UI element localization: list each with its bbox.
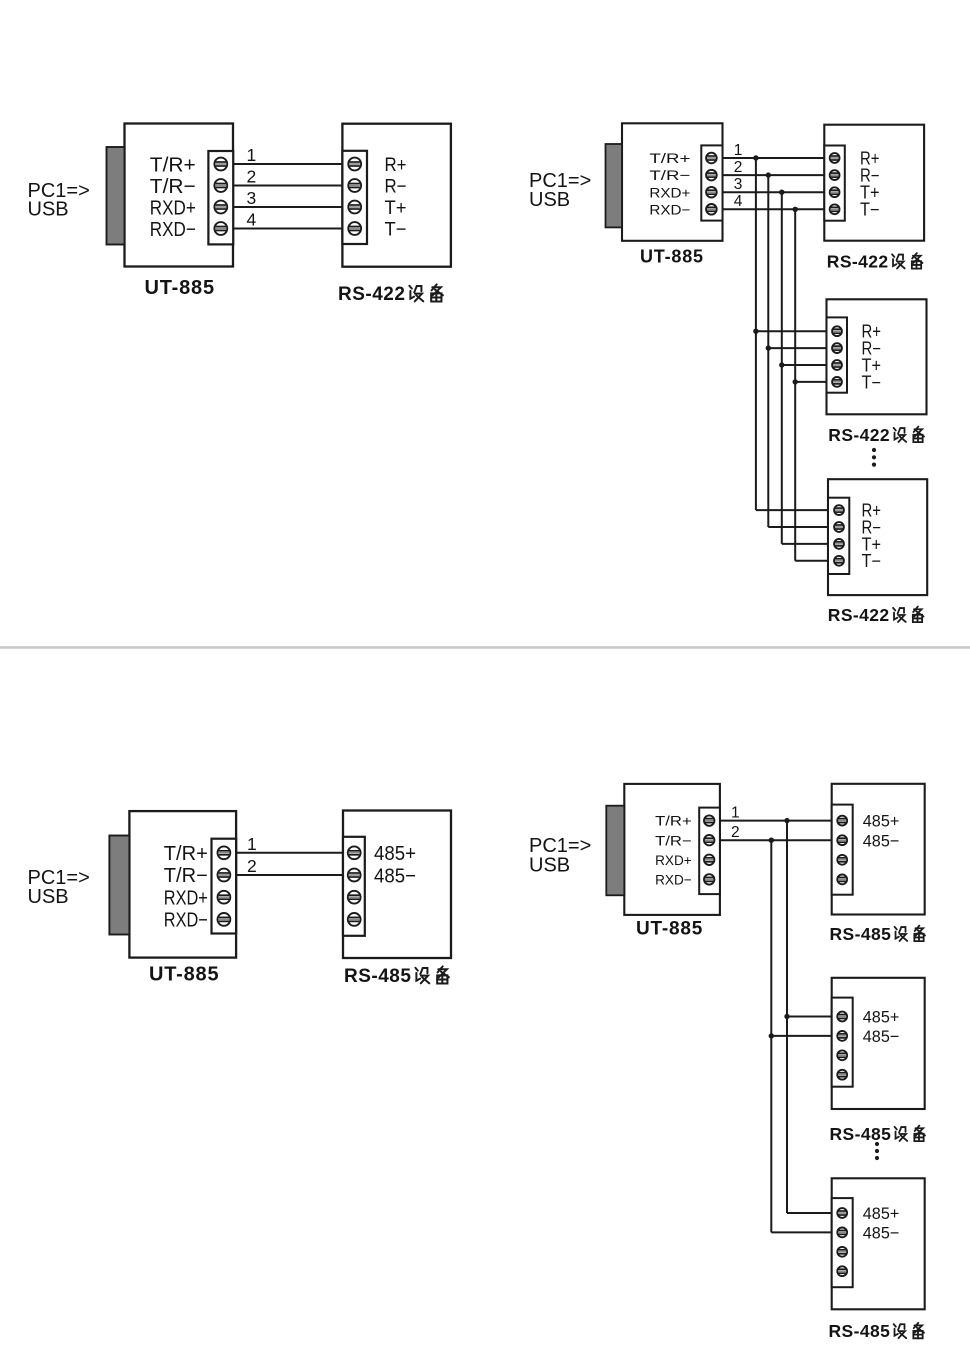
terminal block of RS-485 device 1 (D) — [832, 805, 853, 895]
device 3 terminal screw 4 (D) — [837, 1266, 847, 1276]
vertical bus wire 3 (B) — [781, 192, 783, 544]
svg-text:T/R−: T/R− — [150, 175, 196, 198]
svg-text:RXD−: RXD− — [649, 202, 690, 218]
device 1 terminal screw 1 (D) — [837, 816, 847, 826]
svg-text:4: 4 — [247, 210, 257, 230]
junction node wire 2 at device 2 tap (D) — [769, 1033, 774, 1038]
svg-text:2: 2 — [731, 824, 740, 841]
wire 2 (A) UT-885 pin 2 to RS-422 device — [233, 185, 343, 187]
branch wire 2 to device 3 (B) — [768, 526, 828, 528]
diagram D: UT-885 to multiple RS-485 devices — [529, 784, 925, 1341]
svg-text:485−: 485− — [863, 1027, 900, 1046]
device 3 terminal screw 1 (D) — [837, 1208, 847, 1218]
svg-text:485−: 485− — [863, 831, 900, 850]
RS-485 device body (C) — [343, 811, 451, 959]
RS-422 device 3 body (B) — [828, 479, 927, 595]
svg-text:T+: T+ — [385, 197, 407, 219]
terminal screw pin 2 of UT-885 (B) — [706, 170, 717, 181]
svg-text:4: 4 — [734, 193, 743, 210]
vertical bus wire 1 (D) — [786, 821, 788, 1213]
USB plug connector (B) — [606, 144, 623, 227]
svg-text:T/R+: T/R+ — [164, 843, 208, 865]
branch wire 4 to device 2 (B) — [795, 381, 826, 383]
designator sheBei chars device 3 (D) — [894, 1323, 924, 1339]
svg-text:RXD−: RXD− — [150, 218, 196, 241]
device 1 terminal screw T- (B) — [830, 204, 840, 214]
junction node wire 4 at device 1 tap (B) — [793, 207, 798, 212]
device terminal screw R+ (A) — [348, 158, 361, 171]
branch wire 1 to device 3 (B) — [756, 509, 828, 511]
svg-text:T−: T− — [385, 219, 407, 241]
designator sheBei chars (C) — [415, 966, 449, 983]
section divider line — [0, 646, 970, 649]
terminal block of RS-422 device (A) — [342, 151, 367, 244]
branch wire 2 to device 2 (D) — [771, 1035, 831, 1037]
device terminal screw T- (A) — [348, 222, 361, 235]
svg-text:2: 2 — [734, 159, 743, 176]
converter UT-885 body (A) — [125, 124, 234, 267]
wire 2 (C) UT-885 pin 2 to RS-485 device — [236, 874, 344, 876]
svg-text:RS-485: RS-485 — [830, 1124, 892, 1144]
device terminal screw R- (A) — [348, 179, 361, 192]
wire 1 (B) bus from UT-885 pin 1 — [723, 157, 825, 159]
diagram C: UT-885 to single RS-485 device — [28, 811, 452, 988]
terminal block of RS-422 device 3 (B) — [828, 498, 849, 574]
svg-text:RS-422: RS-422 — [828, 425, 890, 445]
terminal screw pin 3 of UT-885 (C) — [218, 891, 231, 904]
device 2 terminal screw 2 (D) — [837, 1031, 847, 1041]
svg-text:RXD+: RXD+ — [150, 196, 196, 219]
svg-text:485+: 485+ — [374, 842, 416, 865]
diagram B: UT-885 to multiple RS-422 devices — [529, 123, 927, 625]
device 1 terminal screw 4 (D) — [837, 875, 847, 885]
designator sheBei chars device 2 (D) — [895, 1126, 925, 1142]
device 2 terminal screw T- (B) — [832, 377, 842, 387]
svg-text:RS-485: RS-485 — [830, 924, 892, 944]
svg-text:T/R−: T/R− — [655, 833, 692, 849]
junction node wire 4 at device 2 tap (B) — [793, 379, 798, 384]
svg-text:PC1=>: PC1=> — [529, 835, 591, 857]
device 3 terminal screw R- (B) — [834, 522, 844, 532]
svg-text:USB: USB — [529, 189, 570, 211]
wire 1 (A) UT-885 pin 1 to RS-422 device — [233, 163, 343, 165]
vertical bus wire 4 (B) — [794, 209, 796, 561]
terminal block of UT-885 (D) — [699, 808, 720, 895]
terminal screw pin 4 of UT-885 (D) — [704, 874, 714, 884]
svg-text:R+: R+ — [385, 154, 407, 176]
junction node wire 3 at device 1 tap (B) — [779, 190, 784, 195]
terminal block of UT-885 (A) — [208, 151, 233, 244]
svg-text:RS-422: RS-422 — [828, 605, 890, 625]
svg-text:RXD+: RXD+ — [655, 853, 692, 869]
terminal block of RS-485 device (C) — [343, 837, 365, 936]
svg-text:485+: 485+ — [863, 1204, 900, 1223]
svg-text:RS-422: RS-422 — [338, 284, 405, 305]
branch wire 2 to device 2 (B) — [768, 347, 826, 349]
svg-text:UT-885: UT-885 — [636, 919, 703, 940]
branch wire 4 to device 3 (B) — [795, 560, 828, 562]
svg-text:RXD+: RXD+ — [649, 185, 690, 201]
terminal screw pin 3 of UT-885 (A) — [214, 201, 227, 214]
branch wire 1 to device 2 (D) — [787, 1016, 832, 1018]
RS-422 device 1 body (B) — [824, 125, 924, 241]
RS-485 device 3 body (D) — [832, 1178, 925, 1309]
terminal screw pin 3 of UT-885 (D) — [704, 855, 714, 865]
svg-text:T−: T− — [862, 372, 882, 392]
terminal block of UT-885 (C) — [212, 839, 237, 934]
branch wire 2 to device 3 (D) — [771, 1231, 831, 1233]
wire 4 (B) bus from UT-885 pin 4 — [723, 208, 825, 210]
svg-text:2: 2 — [247, 856, 257, 876]
designator sheBei chars device 2 (B) — [894, 427, 924, 443]
wire 3 (B) bus from UT-885 pin 3 — [723, 191, 825, 193]
USB plug connector (A) — [107, 147, 125, 245]
svg-text:T−: T− — [862, 551, 882, 571]
svg-text:RXD+: RXD+ — [164, 887, 208, 909]
terminal screw pin 1 of UT-885 (C) — [218, 846, 231, 859]
svg-text:T/R−: T/R− — [164, 865, 208, 887]
ellipsis more devices (B) — [872, 448, 876, 467]
wire 4 (A) UT-885 pin 4 to RS-422 device — [233, 228, 343, 230]
terminal screw pin 1 of UT-885 (B) — [706, 153, 717, 164]
wire 2 (B) bus from UT-885 pin 2 — [723, 174, 825, 176]
terminal block of RS-422 device 2 (B) — [827, 317, 848, 392]
svg-text:RXD−: RXD− — [655, 873, 692, 889]
device 3 terminal screw T+ (B) — [834, 539, 844, 549]
terminal screw pin 2 of UT-885 (D) — [704, 835, 714, 845]
svg-text:R−: R− — [385, 176, 407, 198]
device 1 terminal screw R- (B) — [830, 170, 840, 180]
device 1 terminal screw R+ (B) — [830, 153, 840, 163]
junction node wire 1 at device 1 tap (D) — [784, 818, 789, 823]
junction node wire 2 at device 1 tap (B) — [766, 172, 771, 177]
svg-text:RS-485: RS-485 — [829, 1321, 891, 1341]
svg-text:T/R+: T/R+ — [649, 151, 690, 167]
vertical bus wire 2 (D) — [770, 840, 772, 1232]
designator sheBei chars (A) — [409, 284, 443, 301]
device terminal screw 4 (C) — [348, 913, 361, 926]
svg-text:1: 1 — [731, 804, 740, 821]
svg-text:USB: USB — [529, 855, 570, 877]
designator sheBei chars device 1 (B) — [892, 253, 922, 269]
svg-text:USB: USB — [28, 198, 69, 220]
wire 2 (D) bus from UT-885 pin 2 — [720, 839, 834, 841]
terminal screw pin 1 of UT-885 (A) — [214, 158, 227, 171]
svg-text:UT-885: UT-885 — [145, 277, 215, 299]
terminal block of RS-422 device 1 (B) — [824, 146, 845, 221]
svg-text:RXD−: RXD− — [164, 910, 208, 932]
svg-text:T/R−: T/R− — [649, 168, 690, 184]
vertical bus wire 2 (B) — [767, 175, 769, 527]
svg-text:1: 1 — [734, 142, 743, 159]
svg-text:RS-485: RS-485 — [344, 966, 411, 987]
svg-text:485+: 485+ — [863, 812, 900, 831]
diagram A: UT-885 to single RS-422 device — [28, 124, 451, 306]
wire 3 (A) UT-885 pin 3 to RS-422 device — [233, 206, 343, 208]
device 2 terminal screw 3 (D) — [837, 1050, 847, 1060]
terminal screw pin 2 of UT-885 (A) — [214, 179, 227, 192]
svg-text:485+: 485+ — [863, 1008, 900, 1027]
svg-text:T/R+: T/R+ — [150, 153, 196, 176]
svg-text:RS-422: RS-422 — [827, 252, 889, 272]
terminal screw pin 1 of UT-885 (D) — [704, 815, 714, 825]
branch wire 3 to device 2 (B) — [782, 364, 827, 366]
vertical bus wire 1 (B) — [755, 158, 757, 510]
terminal block of UT-885 (B) — [701, 145, 722, 220]
svg-text:T/R+: T/R+ — [655, 814, 692, 830]
wire 1 (D) bus from UT-885 pin 1 — [720, 820, 834, 822]
junction node wire 1 at device 1 tap (B) — [753, 155, 758, 160]
device 2 terminal screw 1 (D) — [837, 1012, 847, 1022]
device 1 terminal screw T+ (B) — [830, 187, 840, 197]
converter UT-885 body (B) — [622, 123, 723, 241]
terminal screw pin 4 of UT-885 (B) — [706, 204, 717, 215]
RS-422 device body (A) — [342, 124, 451, 267]
device 1 terminal screw 2 (D) — [837, 835, 847, 845]
device terminal screw 3 (C) — [348, 891, 361, 904]
svg-text:3: 3 — [247, 188, 257, 208]
svg-text:UT-885: UT-885 — [640, 246, 704, 266]
device 3 terminal screw T- (B) — [834, 556, 844, 566]
RS-485 device 2 body (D) — [832, 978, 925, 1109]
device terminal screw 1 (C) — [348, 846, 361, 859]
terminal block of RS-485 device 3 (D) — [832, 1198, 853, 1287]
svg-text:485−: 485− — [374, 864, 416, 887]
converter UT-885 body (D) — [624, 784, 720, 915]
device terminal screw 2 (C) — [348, 869, 361, 882]
RS-422 device 2 body (B) — [827, 299, 927, 414]
device 2 terminal screw R- (B) — [832, 343, 842, 353]
device terminal screw T+ (A) — [348, 201, 361, 214]
wire 1 (C) UT-885 pin 1 to RS-485 device — [236, 852, 344, 854]
USB plug connector (C) — [109, 836, 129, 935]
junction node wire 2 at device 2 tap (B) — [766, 345, 771, 350]
device 3 terminal screw 3 (D) — [837, 1247, 847, 1257]
designator sheBei chars device 3 (B) — [893, 607, 923, 623]
junction node wire 2 at device 1 tap (D) — [769, 838, 774, 843]
svg-text:1: 1 — [247, 145, 257, 165]
branch wire 3 to device 3 (B) — [782, 543, 828, 545]
USB plug connector (D) — [606, 806, 624, 896]
terminal screw pin 3 of UT-885 (B) — [706, 187, 717, 198]
device 1 terminal screw 3 (D) — [837, 855, 847, 865]
branch wire 1 to device 2 (B) — [756, 330, 827, 332]
svg-text:2: 2 — [247, 167, 257, 187]
junction node wire 1 at device 2 tap (B) — [753, 329, 758, 334]
junction node wire 1 at device 2 tap (D) — [784, 1014, 789, 1019]
svg-text:3: 3 — [734, 176, 743, 193]
converter UT-885 body (C) — [129, 811, 236, 958]
device 3 terminal screw R+ (B) — [834, 505, 844, 515]
svg-text:UT-885: UT-885 — [149, 963, 219, 985]
svg-text:1: 1 — [247, 834, 257, 854]
terminal screw pin 4 of UT-885 (C) — [218, 913, 231, 926]
terminal screw pin 2 of UT-885 (C) — [218, 869, 231, 882]
designator sheBei chars device 1 (D) — [895, 926, 925, 942]
device 2 terminal screw T+ (B) — [832, 360, 842, 370]
device 3 terminal screw 2 (D) — [837, 1228, 847, 1238]
junction node wire 3 at device 2 tap (B) — [779, 362, 784, 367]
device 2 terminal screw R+ (B) — [832, 326, 842, 336]
RS-485 device 1 body (D) — [832, 784, 925, 915]
ellipsis more devices (D) — [875, 1142, 879, 1160]
terminal screw pin 4 of UT-885 (A) — [214, 222, 227, 235]
branch wire 1 to device 3 (D) — [787, 1212, 832, 1214]
svg-text:T−: T− — [860, 200, 880, 220]
terminal block of RS-485 device 2 (D) — [832, 998, 853, 1087]
svg-text:USB: USB — [28, 886, 69, 908]
device 2 terminal screw 4 (D) — [837, 1070, 847, 1080]
svg-text:485−: 485− — [863, 1224, 900, 1243]
